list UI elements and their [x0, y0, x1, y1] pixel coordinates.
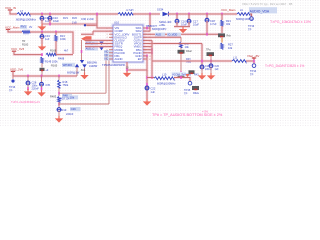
wire vcom rail	[147, 76, 154, 79]
wire stub y49.7	[143, 48, 152, 51]
wire pin40	[85, 39, 113, 42]
wire bus to port	[246, 60, 254, 63]
junction x181 vcom	[180, 76, 182, 79]
testpoint blob TP9	[178, 50, 185, 54]
wire R13 drop	[55, 32, 58, 35]
ground arrow C20	[210, 73, 212, 76]
ground arrow feedback	[58, 116, 60, 119]
resistor R14	[46, 53, 56, 56]
ground arrow x84	[84, 73, 86, 76]
svg-text:10uF: 10uF	[193, 22, 199, 26]
resistor R27	[221, 43, 224, 49]
wire C16 C17 gnd tie	[174, 25, 190, 28]
capacitor C35	[40, 82, 44, 86]
svg-text:B12: B12	[81, 70, 86, 72]
wire stub y46.6	[143, 45, 152, 48]
net label VCOM_3V6	[172, 72, 187, 76]
svg-text:R488: R488	[58, 57, 65, 61]
svg-text:4.7uF: 4.7uF	[210, 22, 217, 26]
wire pin40 right	[143, 39, 152, 42]
wire pgnd stub a	[143, 54, 147, 57]
wire C17 lower	[188, 22, 191, 26]
resistor R19	[58, 97, 61, 103]
svg-text:U10: U10	[114, 21, 120, 25]
wire x152 vertical	[151, 40, 154, 77]
wire top rail C	[168, 13, 237, 16]
power port VCC_3V3	[12, 50, 16, 52]
net label NC2	[104, 54, 112, 57]
wire C35 drop	[41, 76, 43, 83]
wire x147 down	[146, 70, 149, 100]
wire VCC_IN down	[10, 10, 17, 14]
resistor R13	[55, 35, 58, 41]
wire pin46	[85, 45, 113, 48]
wire top rail A	[30, 13, 118, 16]
inductor L10	[154, 77, 174, 80]
svg-text:Rsb: Rsb	[227, 35, 232, 38]
wire node dot	[86, 24, 97, 27]
svg-text:EP: EP	[138, 57, 142, 61]
svg-text:R149 100k: R149 100k	[45, 60, 58, 64]
svg-text:= 5%: = 5%	[202, 109, 209, 113]
wire C17 drop	[188, 14, 191, 20]
svg-text:750k: 750k	[63, 83, 69, 87]
wire 3v6 rail	[13, 71, 77, 76]
ground arrow C34	[41, 44, 43, 47]
capacitor C19	[200, 65, 204, 69]
wire stub y52.8	[143, 51, 152, 54]
wire C28 lower	[27, 84, 29, 89]
junction rail x189	[188, 13, 190, 16]
net label RV1 box	[20, 25, 27, 29]
capacitor C6	[40, 17, 44, 21]
capacitor C18	[205, 18, 209, 22]
wire en corner	[81, 31, 93, 34]
svg-text:4.7uH: 4.7uH	[126, 8, 133, 12]
power port Vbat	[252, 57, 256, 59]
wire 3v3 rail B	[56, 53, 73, 56]
wire C20 drop	[210, 61, 212, 65]
inductor L11	[232, 60, 246, 63]
wire fb col a	[58, 76, 60, 80]
wire fb tap inner	[59, 92, 106, 94]
capacitor C22	[145, 86, 149, 90]
junction vdd x207	[206, 33, 208, 36]
ground arrow C28	[27, 89, 29, 92]
junction 3v6 x41	[41, 75, 43, 78]
capacitor C16	[175, 19, 179, 23]
junction bus x202	[201, 60, 203, 63]
wire vbat down	[253, 61, 256, 63]
net label NC3	[104, 57, 112, 60]
svg-text:AUDIO_VDA: AUDIO_VDA	[250, 9, 270, 13]
svg-text:TPS65133DPDPR: TPS65133DPDPR	[102, 63, 125, 67]
wire C34 drop	[41, 32, 44, 36]
junction gnd rail x50	[49, 23, 51, 26]
junction 3v6 x59	[58, 75, 60, 78]
svg-text:10k: 10k	[185, 45, 190, 49]
svg-text:L11: L11	[233, 55, 238, 59]
wire C34 lower	[41, 37, 44, 44]
wire C19 lower	[201, 68, 203, 73]
svg-text:R483: R483	[50, 95, 57, 99]
svg-text:TxP=1.21x(R45/R43)+1V: TxP=1.21x(R45/R43)+1V	[11, 100, 40, 104]
svg-text:+2Bs: +2Bs	[159, 23, 166, 27]
ground arrow left cap bank	[41, 24, 43, 27]
svg-text:100k: 100k	[60, 37, 66, 41]
node dot left of IC	[84, 24, 86, 26]
wire vcom rail b	[174, 78, 190, 82]
wire SW vertical	[149, 14, 152, 31]
junction rail x150	[149, 13, 151, 16]
junction SW x147	[146, 27, 148, 30]
wire cap C10 drop	[49, 14, 52, 18]
testpoint blob TP17	[192, 86, 199, 90]
junction 3v3 x42	[41, 53, 43, 56]
wire EP drop	[126, 62, 129, 70]
svg-text:TP# = TP_AUDIO'S BOTTOM SIDE ±: TP# = TP_AUDIO'S BOTTOM SIDE ± 2%	[152, 113, 223, 117]
svg-text:TP: TP	[9, 89, 13, 93]
wire TP16 stem	[12, 76, 14, 79]
junction fb mid	[58, 92, 60, 95]
IC U10 body	[112, 24, 144, 63]
wire C28 drop	[27, 76, 29, 82]
junction x147 y77	[146, 76, 148, 79]
wire C20 lower	[210, 67, 212, 73]
svg-text:220nF: 220nF	[32, 87, 40, 91]
power port VCC_IN	[8, 9, 12, 11]
resistor R47	[180, 42, 183, 48]
port triangle row2	[99, 42, 103, 45]
wire R21 drop	[221, 14, 224, 20]
wire pgnd stub b	[143, 58, 147, 61]
wire x42 col	[41, 63, 43, 68]
svg-text:40k: 40k	[226, 22, 231, 26]
svg-text:VCC_Main: VCC_Main	[5, 25, 20, 29]
wire fb col d	[58, 110, 60, 116]
capacitor C29	[57, 108, 61, 112]
svg-text:SS34: SS34	[157, 7, 164, 11]
svg-text:C29: C29	[71, 107, 77, 111]
svg-text:R165: R165	[51, 64, 58, 68]
testpoint blob TP18	[189, 70, 195, 74]
wire en pin31	[93, 30, 113, 33]
wire VCC_Main rail	[8, 29, 22, 32]
svg-text:RV1: RV1	[21, 25, 27, 29]
wire to TP13	[250, 14, 252, 17]
junction bus x211	[210, 60, 212, 63]
svg-text:220nF: 220nF	[66, 112, 74, 116]
svg-text:TP: TP	[250, 73, 254, 77]
IC U10 pins	[109, 27, 113, 29]
wire arrow marker vcom	[185, 74, 189, 77]
wire rail to VIN pin	[97, 14, 113, 28]
capacitor C28	[26, 81, 30, 85]
svg-text:C30 2.2nF: C30 2.2nF	[81, 17, 94, 21]
svg-text:VCC_3V3: VCC_3V3	[11, 47, 25, 51]
wire x181 lower	[180, 54, 182, 78]
svg-text:TP: TP	[184, 92, 188, 96]
ground arrow x147	[146, 99, 148, 102]
svg-text:RV1: RV1	[63, 16, 69, 20]
svg-text:1uF: 1uF	[215, 68, 220, 71]
svg-text:1uF: 1uF	[45, 37, 50, 41]
svg-text:4148W: 4148W	[89, 64, 98, 68]
wire C16 lower	[176, 22, 179, 26]
net label R483 box	[62, 94, 72, 98]
wire orange stub	[221, 38, 223, 43]
wire C18 lower	[206, 21, 209, 34]
svg-text:R168: R168	[50, 49, 57, 53]
svg-text:600R@100MHz: 600R@100MHz	[157, 81, 176, 85]
junction rail x222	[221, 13, 223, 16]
svg-text:1V8: 1V8	[72, 21, 77, 25]
svg-text:10k: 10k	[228, 46, 233, 50]
wire R13 lower	[55, 41, 58, 54]
svg-text:TP15: TP15	[184, 88, 191, 92]
ground arrow IC	[126, 71, 128, 74]
junction rail x50	[49, 13, 51, 16]
wire fb inner vertical	[106, 56, 113, 93]
testpoint blob TP8	[178, 74, 185, 78]
svg-text:R19: R19	[62, 108, 67, 112]
junction x152 b	[151, 51, 153, 54]
wire fb col c	[58, 102, 60, 108]
svg-text:RV2: RV2	[72, 16, 78, 20]
junction main x56	[55, 31, 57, 34]
svg-text:3V: 3V	[29, 25, 32, 29]
capacitor C20	[209, 64, 213, 68]
wire cap C6 lower	[41, 19, 44, 24]
power port VDD_3V6	[11, 70, 15, 72]
wire fb tap outer h	[59, 103, 109, 105]
svg-text:L10: L10	[162, 72, 167, 76]
svg-text:AGND: AGND	[115, 57, 123, 61]
wire x181 mid	[180, 48, 182, 50]
wire AUDIO_VDD long	[143, 33, 222, 36]
svg-text:R43: R43	[194, 74, 199, 77]
svg-text:TP: TP	[248, 28, 252, 32]
wire x42 col b	[41, 71, 43, 76]
wire C35 lower	[41, 85, 43, 90]
test point TP15	[188, 81, 192, 85]
junction main x42	[41, 31, 43, 34]
power port VCC_Main	[6, 28, 10, 30]
capacitor C17	[187, 19, 191, 23]
wire VCC_Main rail B	[30, 32, 73, 54]
junction rail x207	[206, 13, 208, 16]
svg-text:600R@1MHz: 600R@1MHz	[152, 28, 167, 31]
testpoint blob TP11	[207, 52, 215, 56]
junction x152 a	[151, 48, 153, 51]
wire fb outer vertical	[109, 59, 113, 104]
junction fb low	[58, 103, 60, 106]
wire TP11 stub	[210, 56, 212, 61]
port triangle row3	[99, 47, 103, 50]
inductor L7	[17, 13, 30, 16]
svg-text:TPa: TPa	[206, 49, 211, 52]
port arrow up x77	[75, 64, 79, 67]
svg-text:VCC_Main: VCC_Main	[221, 8, 236, 12]
ground arrow C19	[201, 73, 203, 76]
net label row3	[85, 47, 98, 51]
svg-text:WP400: WP400	[63, 63, 73, 67]
svg-text:600R@1W: 600R@1W	[67, 71, 80, 74]
wire C16 drop	[176, 14, 179, 20]
junction C28 bottom	[27, 87, 29, 90]
wire x82 vertical	[81, 40, 83, 60]
ground arrow output caps	[182, 27, 184, 30]
net label 10k box	[69, 95, 78, 99]
port arrow EN	[81, 36, 92, 41]
junction x152 vcom	[151, 76, 153, 79]
capacitor C10	[48, 17, 52, 21]
wire pin43 right	[143, 42, 202, 45]
wire bus y61	[152, 60, 232, 63]
net label AUDIO_VDD b	[167, 33, 181, 37]
resistor R21	[221, 20, 224, 26]
wire pin43	[85, 42, 113, 45]
test point TP16 dot	[11, 79, 14, 82]
junction rail x97	[96, 13, 98, 16]
svg-text:10k: 10k	[70, 95, 75, 99]
wire pin37 right	[143, 36, 181, 39]
wire x202 vertical	[201, 44, 204, 67]
svg-text:VDD_3V6: VDD_3V6	[10, 67, 24, 71]
junction 3v6 x28	[27, 75, 29, 78]
svg-text:4k7: 4k7	[64, 49, 69, 53]
junction x147 pgnd	[146, 55, 148, 58]
test point TP13	[250, 17, 254, 21]
wire x84 down	[84, 68, 86, 74]
junction C35 bottom	[41, 87, 43, 90]
capacitor C34	[40, 35, 44, 39]
svg-text:TP14: TP14	[250, 69, 257, 73]
wire C18 drop	[206, 14, 209, 19]
diode D1	[163, 12, 169, 16]
wire SW1 to rail	[143, 27, 150, 30]
net label NC1	[104, 50, 112, 53]
svg-text:TP16: TP16	[9, 85, 16, 89]
junction rail x177	[176, 13, 178, 16]
wire VCC_3V3 rail	[14, 51, 42, 54]
testpoint blob TP10	[218, 33, 225, 37]
svg-text:R62a: R62a	[193, 92, 199, 95]
svg-text:600R@100MHz: 600R@100MHz	[16, 18, 36, 22]
net label C29 box	[70, 107, 81, 111]
svg-text:1uF: 1uF	[151, 90, 156, 94]
wire SW2	[143, 30, 150, 33]
net label row2	[85, 41, 98, 45]
resistor R149	[41, 57, 44, 63]
wire cap C6 drop	[41, 14, 44, 18]
resistor R18	[58, 80, 61, 88]
junction vbat	[253, 60, 255, 63]
inductor L1 4.7uH	[118, 13, 133, 16]
junction rail x42	[41, 13, 43, 16]
net label AUDIO_VDA	[249, 7, 277, 13]
junction x82 mid	[81, 50, 83, 53]
svg-text:R4a2: R4a2	[186, 50, 192, 53]
svg-text:T×PG_2kΩ/NTC/B25 ± 1%: T×PG_2kΩ/NTC/B25 ± 1%	[265, 64, 304, 68]
wire top rail B	[133, 13, 160, 16]
port arrow x84	[82, 64, 86, 67]
svg-text:TP13: TP13	[248, 24, 255, 28]
wire gnd rail y24	[42, 23, 97, 26]
net label AUDIO_VDD a	[155, 33, 165, 37]
svg-text:VCOM_3V4: VCOM_3V4	[172, 72, 186, 76]
wire fb col b	[58, 88, 60, 96]
ferrite FB2	[22, 31, 30, 34]
junction gnd node	[126, 69, 128, 72]
net label WP400	[62, 63, 75, 67]
wire port x77 down	[76, 67, 78, 76]
wire cap C10 lower	[49, 19, 52, 24]
testpoint blob TP x42	[40, 68, 45, 71]
svg-text:VDA = 5.2V/4.7V typ - R21 set: VDA = 5.2V/4.7V typ - R21 set 40k7 · FB	[242, 2, 292, 6]
ground arrow C35	[41, 90, 43, 93]
port arrow x82	[80, 60, 84, 63]
svg-text:R160: R160	[22, 42, 29, 46]
inductor L9 ferrite	[237, 13, 250, 16]
svg-text:C35: C35	[46, 84, 51, 87]
svg-text:B5819W: B5819W	[87, 60, 98, 64]
junction C22 top	[146, 83, 148, 86]
wire R21 lower	[221, 26, 224, 33]
wire x147 vertical	[127, 56, 147, 70]
test point TP14	[252, 64, 256, 68]
wire x181 vertical	[180, 37, 182, 42]
svg-text:T×PG_10kΩ/47kΩ ± 10%: T×PG_10kΩ/47kΩ ± 10%	[270, 20, 312, 24]
junction x181 y72	[180, 71, 182, 74]
